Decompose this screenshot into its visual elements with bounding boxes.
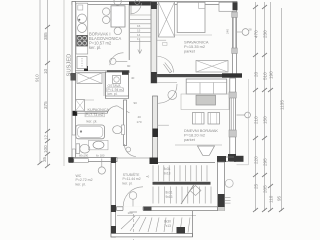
bedroom window jamb bottom	[232, 48, 237, 54]
bottom wall window	[74, 159, 89, 163]
wc text	[76, 174, 93, 187]
svg-text:ker. pl.: ker. pl.	[108, 92, 118, 96]
bottom wall dark left corner	[69, 157, 74, 163]
svg-text:100: 100	[43, 145, 48, 153]
fridge	[77, 57, 87, 69]
entrance door opening	[123, 206, 143, 211]
svg-text:40: 40	[131, 76, 135, 80]
svg-text:parket: parket	[184, 49, 196, 54]
dining chair left 1	[103, 8, 110, 15]
kitchen stair partition wall	[128, 5, 130, 60]
living dining text	[89, 32, 121, 51]
kitchen wall pier dark	[84, 66, 88, 71]
rug	[181, 94, 229, 110]
left dimension line 1	[39, 0, 41, 163]
stair bedroom wall dark top	[151, 2, 157, 9]
bath sink	[89, 140, 109, 150]
stair block right wall	[218, 162, 225, 211]
svg-text:=0: =0	[146, 175, 150, 179]
upper stair arrow	[139, 40, 141, 53]
bedroom window glass	[233, 17, 235, 48]
left wall window (bath)	[72, 135, 76, 149]
stair flight 2 treads	[153, 187, 211, 204]
svg-text:240: 240	[226, 29, 230, 34]
armchair 2	[208, 113, 220, 125]
svg-text:170: 170	[137, 120, 142, 124]
lower flight dark block	[177, 227, 186, 234]
left wall dark segment 1	[71, 73, 77, 81]
svg-text:12: 12	[44, 134, 49, 140]
stair flight 1 treads	[153, 165, 207, 181]
level marker circle right of bedroom	[242, 29, 249, 36]
svg-text:P=2.72 m2: P=2.72 m2	[76, 178, 93, 182]
living right wall dark bottom	[228, 154, 236, 162]
svg-text:ker. pl.: ker. pl.	[123, 182, 133, 186]
armchair 1	[193, 113, 205, 125]
right dimension line 3	[270, 2, 272, 211]
svg-text:470: 470	[254, 30, 259, 38]
bedroom text	[184, 40, 209, 54]
hall living wall	[153, 96, 158, 160]
svg-text:385: 385	[43, 32, 48, 40]
svg-text:P=7.73 m2: P=7.73 m2	[86, 113, 104, 117]
level marker circle right of living room	[245, 112, 251, 118]
dining chair top	[114, 0, 121, 5]
svg-text:9x13: 9x13	[166, 195, 173, 199]
stair flight 2 label	[166, 191, 173, 200]
svg-text:16: 16	[137, 24, 141, 28]
svg-text:13: 13	[137, 37, 141, 41]
stair flight 2 direction diagonal	[181, 185, 194, 205]
svg-text:ker. pl.: ker. pl.	[87, 120, 98, 124]
bedroom wardrobe 2 X	[196, 61, 228, 73]
living door arc	[157, 82, 177, 84]
bedroom door arc	[158, 57, 174, 73]
svg-text:150: 150	[263, 116, 268, 124]
svg-text:9x13: 9x13	[164, 172, 171, 176]
hall wardrobe X	[77, 73, 102, 84]
ostava dark corner	[122, 71, 129, 75]
right dimension line 2	[264, 2, 266, 211]
svg-text:8x31: 8x31	[166, 191, 173, 195]
bath right wall	[124, 100, 127, 146]
kitchen sink bowls	[78, 14, 87, 23]
dining chair bottom	[114, 27, 121, 34]
entrance door arc	[123, 187, 143, 207]
living window jamb bottom	[229, 130, 236, 137]
stair bedroom wall	[151, 2, 157, 83]
stair flight 1 label	[164, 167, 171, 176]
lower right edge	[192, 211, 194, 237]
right dimension line 1	[255, 2, 257, 211]
svg-text:210: 210	[254, 116, 259, 124]
svg-text:20: 20	[254, 71, 259, 77]
level marker circle right of staircase	[225, 179, 233, 187]
living text	[184, 128, 218, 142]
living window jamb top	[229, 92, 236, 98]
bottom wall tiny labels	[79, 154, 105, 158]
svg-text:220: 220	[254, 156, 259, 164]
svg-text:7x13: 7x13	[164, 224, 171, 228]
lower bottom wall	[111, 234, 193, 237]
living window glass	[231, 98, 233, 130]
bedroom wardrobe X	[158, 2, 174, 37]
bottom wall left section	[69, 158, 118, 162]
svg-text:ker. pl.: ker. pl.	[76, 183, 86, 187]
svg-text:295: 295	[263, 158, 268, 166]
kitchen stove	[76, 35, 87, 46]
bedroom right wall	[233, 2, 237, 74]
svg-text:35: 35	[42, 156, 47, 162]
dark wall piece right of entrance	[144, 207, 152, 211]
main bottom wall right thin	[158, 162, 215, 164]
svg-text:8x30: 8x30	[164, 220, 171, 224]
ostava room walls	[106, 72, 129, 98]
bedroom living wall (dark)	[151, 74, 242, 77]
svg-text:KUPAONICA: KUPAONICA	[88, 108, 110, 112]
hall lower door arc	[124, 144, 136, 157]
right dimension ticks	[253, 5, 284, 212]
stair block left wall	[111, 158, 116, 238]
stair bedroom wall dark bottom	[151, 72, 157, 83]
toilet right wall	[122, 125, 125, 135]
stair landing dark bar	[153, 182, 211, 185]
lower flight label	[164, 220, 171, 229]
dashed projection line	[133, 214, 135, 240]
tv trapezoid	[198, 146, 215, 155]
bedroom door leaf	[164, 63, 172, 73]
svg-text:60x190: 60x190	[79, 154, 89, 158]
ostava left wall line	[103, 73, 105, 97]
top wall	[72, 2, 237, 5]
right dimension line 4	[281, 8, 283, 211]
svg-text:10: 10	[43, 68, 48, 74]
kitchen faucet	[78, 5, 83, 10]
terrace edge right	[247, 79, 249, 165]
right dimension labels	[254, 30, 285, 203]
kitchen counter	[76, 3, 88, 54]
svg-text:40: 40	[138, 115, 142, 119]
main bottom wall center dark	[150, 158, 159, 165]
kitchen hall door arc	[110, 53, 124, 65]
small shaft X box	[76, 100, 85, 112]
living room right wall	[230, 78, 236, 162]
bath door arc	[108, 106, 117, 113]
bathroom text	[86, 108, 110, 124]
tv bench line	[175, 144, 222, 146]
svg-text:190: 190	[269, 71, 274, 79]
staircase text	[123, 172, 141, 186]
washing machine	[113, 76, 121, 84]
svg-text:90: 90	[134, 101, 138, 105]
left wall pillar (black)	[73, 111, 78, 116]
svg-text:1135: 1135	[280, 100, 285, 110]
bedroom window jamb top	[232, 12, 237, 18]
stair room bottom wall	[117, 207, 218, 211]
left dimension line 2	[47, 0, 49, 166]
bed foot line	[174, 34, 212, 36]
bed	[177, 2, 205, 32]
hall small dimension texts	[127, 64, 142, 124]
left dimension labels	[35, 32, 49, 162]
svg-text:230: 230	[263, 30, 268, 38]
dining chair left 2	[103, 16, 110, 23]
entrance threshold	[130, 211, 138, 213]
coffee table	[196, 95, 216, 105]
wc leader circle	[98, 167, 105, 174]
svg-text:15: 15	[137, 28, 141, 32]
svg-text:ker. pl.: ker. pl.	[89, 45, 101, 50]
bath top wall	[77, 111, 107, 113]
svg-text:90: 90	[127, 64, 131, 68]
stair right door sill lines	[225, 197, 231, 199]
hall living wall dark	[153, 129, 159, 138]
nightstand	[219, 2, 237, 11]
left dimension end ticks	[38, 25, 51, 168]
svg-text:110: 110	[269, 195, 274, 203]
dining table	[111, 6, 125, 27]
svg-text:parket: parket	[184, 137, 196, 142]
lower flight winder treads	[117, 216, 196, 233]
kitchen bottom wall dark segment	[107, 70, 129, 73]
svg-text:375: 375	[43, 101, 48, 109]
left wall	[72, 2, 76, 163]
top wall dark segment	[129, 2, 152, 6]
svg-text:100: 100	[128, 211, 133, 215]
svg-text:510: 510	[263, 72, 268, 80]
ostava text	[108, 84, 125, 96]
svg-text:8x31: 8x31	[164, 167, 171, 171]
svg-text:P=11.44 m2: P=11.44 m2	[123, 177, 141, 181]
svg-text:910: 910	[35, 74, 40, 82]
bottom wall right dark segments	[217, 156, 226, 162]
property line SUSJED	[63, 0, 65, 166]
right wall dark corner	[233, 2, 238, 10]
bathtub	[76, 125, 105, 139]
toilet left	[76, 144, 80, 154]
svg-text:25: 25	[254, 183, 259, 189]
upper stair treads	[130, 15, 151, 41]
upper stair tread numbers	[137, 24, 141, 41]
kitchen bottom wall	[76, 71, 130, 73]
svg-text:14: 14	[137, 33, 141, 37]
svg-text:95: 95	[277, 195, 282, 201]
kitchen door arc	[130, 3, 141, 14]
svg-text:205: 205	[263, 185, 268, 193]
sofa	[186, 79, 227, 94]
svg-text:6x 180: 6x 180	[96, 154, 105, 158]
svg-text:28: 28	[249, 28, 253, 32]
